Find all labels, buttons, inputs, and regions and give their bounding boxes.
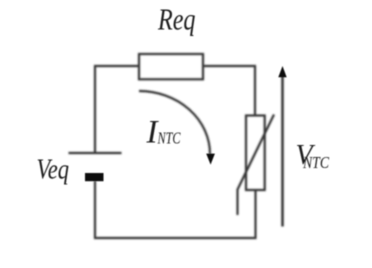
svg-text:Req: Req <box>157 1 195 36</box>
svg-text:NTC: NTC <box>302 153 329 172</box>
svg-text:Veq: Veq <box>37 154 70 186</box>
svg-text:NTC: NTC <box>157 129 181 148</box>
